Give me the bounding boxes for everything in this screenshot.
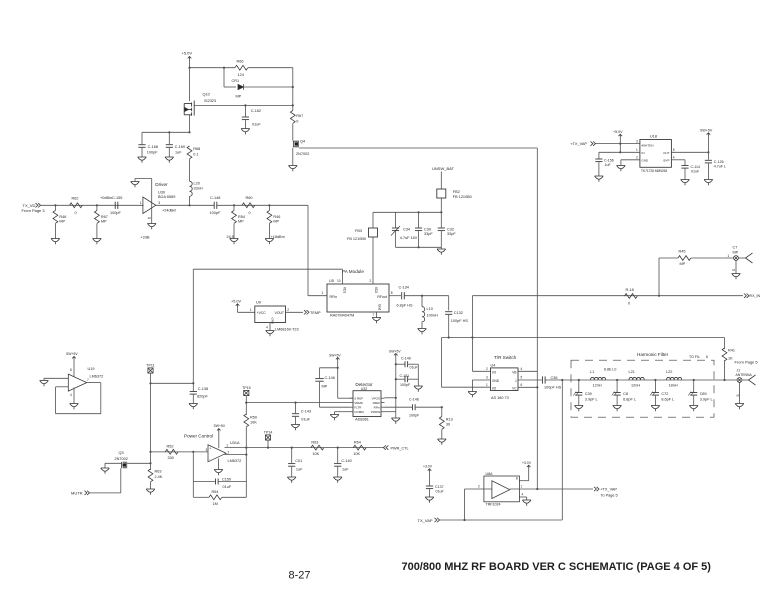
ground C168 (138, 157, 147, 163)
resistor R67 shunt (95, 211, 100, 224)
svg-text:BYP: BYP (663, 158, 669, 162)
ground C8 (613, 406, 622, 412)
svg-text:RFout: RFout (377, 295, 387, 299)
wire FB3 up to rail (372, 212, 374, 228)
wire to CR1 (224, 86, 236, 88)
capacitor C151 (396, 378, 405, 380)
svg-text:6: 6 (706, 355, 708, 359)
capacitor C156 (595, 159, 602, 162)
resistor R64 (209, 495, 222, 500)
wire TP14 stub (267, 440, 269, 448)
svg-text:100pF: 100pF (210, 211, 221, 215)
svg-text:C-146: C-146 (325, 376, 335, 380)
wire down right of R66/CR1 (292, 68, 294, 111)
svg-text:C30: C30 (424, 228, 431, 232)
svg-text:TK71728 MM5265: TK71728 MM5265 (641, 169, 667, 173)
wire VD2 to FB3 (372, 237, 374, 284)
svg-text:3.9pF L: 3.9pF L (585, 398, 598, 402)
wire to C169 (168, 132, 170, 144)
svg-text:TP15: TP15 (242, 386, 251, 390)
svg-text:SW+5V: SW+5V (700, 129, 713, 133)
svg-text:01uF: 01uF (691, 170, 700, 174)
ground R53 (146, 489, 155, 495)
svg-text:C-148: C-148 (409, 398, 419, 402)
wire Q3 source down (120, 468, 122, 493)
wire feedback left vertical (192, 452, 194, 498)
svg-text:3: 3 (486, 376, 488, 380)
junction crossing (471, 336, 473, 338)
svg-text:C8: C8 (623, 392, 628, 396)
power flag arrow SW_5V (707, 133, 711, 136)
capacitor C146 (315, 379, 323, 382)
svg-text:From Page 3: From Page 3 (22, 208, 46, 213)
svg-text:VPOS: VPOS (372, 396, 380, 400)
svg-text:SW+5V: SW+5V (214, 424, 226, 428)
ground COMM (330, 415, 339, 421)
svg-text:100pF HS: 100pF HS (544, 386, 562, 390)
wire Q3 gate (105, 462, 122, 464)
svg-text:TRF1024: TRF1024 (486, 503, 501, 507)
capacitor C72 (652, 393, 659, 396)
svg-text:01uF: 01uF (252, 123, 261, 127)
svg-text:01uF: 01uF (410, 365, 419, 369)
transistor Q10 (184, 101, 194, 116)
svg-text:L1: L1 (590, 370, 594, 374)
wire R41 to antenna node (724, 360, 726, 380)
svg-text:33pF: 33pF (447, 232, 456, 236)
svg-text:1M: 1M (213, 502, 218, 506)
wire Q3 drain to R53 node (127, 462, 150, 464)
junction L20 feed (188, 204, 190, 206)
svg-text:TEMP: TEMP (310, 311, 321, 315)
ground C39 (575, 406, 584, 412)
svg-text:3: 3 (636, 139, 638, 143)
svg-text:PWDN: PWDN (371, 410, 380, 414)
resistor R54 (232, 211, 237, 224)
junction bottom rail (418, 246, 420, 248)
wire U19 + input to ground (44, 377, 68, 379)
wire pin 5 T/R (518, 379, 542, 381)
svg-text:4: 4 (673, 156, 675, 160)
ground U19 (70, 404, 79, 410)
capacitor C34 plates (392, 228, 399, 231)
ground C138 (189, 404, 198, 410)
svg-text:1: 1 (521, 485, 523, 489)
svg-text:R66: R66 (237, 60, 244, 64)
svg-text:C-126: C-126 (714, 160, 724, 164)
op-amp U8A box (484, 476, 520, 502)
wire down to C138 (192, 383, 194, 391)
pin stub detector right (381, 397, 385, 399)
resistor R67 (290, 111, 295, 124)
inductor L10 (422, 307, 425, 322)
wire to R67 shunt (96, 205, 98, 210)
capacitor C01 (288, 464, 295, 467)
wire down to C162 (244, 105, 246, 116)
wire R45 to C7 (691, 257, 734, 259)
svg-text:18nH: 18nH (669, 384, 678, 388)
svg-text:R41: R41 (728, 349, 735, 353)
wire R67b to ground (96, 224, 98, 239)
pin stub detector left (350, 406, 354, 408)
resistor R53 2.4K (148, 469, 153, 482)
wire Q10 gate rail (194, 104, 293, 106)
wire R68 to L20 (189, 159, 191, 181)
svg-text:12nH: 12nH (631, 384, 640, 388)
pin stub detector left (350, 397, 354, 399)
capacitor C137 (426, 486, 433, 489)
svg-text:FB 1210B0: FB 1210B0 (453, 195, 472, 199)
wire C148det to TX line tap (416, 406, 442, 408)
junction U8A input (463, 519, 465, 521)
wire feedback right (100, 383, 102, 414)
wire TP11 vertical (150, 373, 152, 470)
ground U18 (617, 166, 626, 172)
svg-text:2.4K: 2.4K (155, 475, 163, 479)
svg-text:100pF: 100pF (110, 211, 121, 215)
resistor R68 (187, 146, 192, 159)
diode CR1 (238, 84, 243, 90)
svg-text:MP: MP (322, 385, 328, 389)
junction filter node 3 (654, 379, 656, 381)
wire C7 to ground (735, 260, 737, 273)
ground Q4 (289, 166, 298, 172)
svg-text:C89: C89 (700, 392, 707, 396)
svg-text:FB 1210B0: FB 1210B0 (347, 237, 366, 241)
svg-text:100nH: 100nH (427, 314, 438, 318)
junction TP14 (267, 447, 269, 449)
svg-text:FB3: FB3 (355, 229, 362, 233)
wire +3.0V to U8A (528, 469, 530, 481)
wire C140 to ground (337, 467, 339, 477)
svg-text:6.8pF L: 6.8pF L (623, 398, 636, 402)
svg-text:From Page 5: From Page 5 (735, 360, 759, 365)
svg-text:U31A: U31A (230, 441, 240, 445)
ground C126 (704, 180, 713, 186)
wire ground stem driver (134, 179, 136, 182)
svg-text:Driver: Driver (155, 182, 168, 187)
wire C72 to ground (654, 396, 656, 406)
svg-text:R45: R45 (679, 250, 686, 254)
svg-text:MP: MP (236, 95, 242, 99)
ground driver (147, 224, 156, 230)
wire VRMS line (246, 402, 349, 404)
svg-text:8: 8 (70, 368, 72, 372)
wire to C01 (291, 448, 293, 463)
capacitor C30 (415, 228, 422, 231)
capacitor C168 (138, 145, 145, 148)
wire MUTR line (90, 492, 121, 494)
wire R46b to ground (268, 224, 270, 239)
ferrite bead FB2 (437, 189, 446, 198)
svg-text:To Page 5: To Page 5 (601, 494, 618, 498)
svg-text:IN: IN (642, 151, 645, 155)
wire R46 to ground (54, 224, 56, 239)
capacitor C132 (445, 312, 452, 315)
ground L10 (418, 329, 427, 335)
svg-text:0: 0 (249, 211, 251, 215)
junction C151 (395, 378, 397, 380)
wire R53 to ground (150, 482, 152, 489)
svg-text:C36: C36 (551, 376, 558, 380)
wire filter shunt C89 (693, 380, 695, 392)
wire U19 to ground (73, 388, 75, 404)
svg-text:TP11: TP11 (146, 363, 154, 367)
svg-text:0: 0 (628, 302, 630, 306)
junction C162 tap (244, 104, 246, 106)
wire C143 to ground (295, 417, 297, 425)
svg-text:1: 1 (728, 254, 730, 258)
svg-text:R50: R50 (250, 416, 257, 420)
wire VD1 feed from power control (193, 268, 342, 270)
svg-text:8: 8 (391, 291, 393, 295)
wire R54 to ground (233, 224, 235, 239)
svg-text:700/800 MHZ RF BOARD VER C SCH: 700/800 MHZ RF BOARD VER C SCHEMATIC (PA… (401, 561, 711, 573)
wire BYP pin U18 (671, 159, 685, 161)
svg-text:#SHTDN: #SHTDN (642, 143, 654, 147)
wire input down to TX_VAP line (464, 489, 466, 520)
svg-text:R52: R52 (167, 445, 174, 449)
svg-text:Gnd: Gnd (378, 304, 382, 310)
junction L10 (421, 295, 423, 297)
wire TX_VAP to SHTDN (596, 143, 640, 145)
wire +5V down (619, 138, 621, 153)
svg-text:4: 4 (522, 493, 524, 497)
svg-text:CR1: CR1 (232, 79, 240, 83)
svg-text:2: 2 (636, 156, 638, 160)
connector J1 (737, 378, 742, 383)
wire +5V vertical to Q10 source (189, 60, 191, 101)
junction pin 6 (536, 386, 538, 388)
ground C72 (651, 406, 660, 412)
svg-text:MP: MP (59, 220, 65, 224)
junction filter node 1 (578, 379, 580, 381)
wire U19 - input (56, 386, 69, 388)
power flag arrow +3.0V right (527, 465, 531, 468)
ground C169 (165, 157, 174, 163)
capacitor C150 (216, 479, 219, 485)
junction bypass rail (188, 131, 190, 133)
resistor R13 (439, 417, 444, 430)
wire C32 bottom (440, 231, 442, 249)
svg-text:39: 39 (446, 423, 450, 427)
wire to R46b (268, 205, 270, 210)
svg-text:4: 4 (521, 367, 523, 371)
svg-text:GND: GND (492, 379, 500, 383)
ground R67b (93, 239, 102, 245)
ground T/R pin3 (468, 392, 477, 398)
junction input line (149, 451, 151, 453)
wire long vertical to power control node (192, 269, 194, 383)
svg-text:L22: L22 (666, 370, 672, 374)
wire into pin 8 (519, 480, 528, 482)
wire detector RFin line (385, 406, 413, 408)
PA module U5 box (327, 284, 389, 312)
svg-text:+5.0V: +5.0V (231, 300, 241, 304)
junction VB control (536, 488, 538, 490)
svg-text:U19: U19 (88, 367, 95, 371)
wire TX_VAP up to RF line (561, 380, 563, 520)
svg-text:1K: 1K (728, 357, 733, 361)
svg-text:RA07M4047M: RA07M4047M (330, 314, 354, 318)
wire OUT pin U18 (671, 151, 708, 153)
svg-text:LM6372: LM6372 (228, 459, 242, 463)
ground PWDN (392, 418, 401, 424)
svg-text:VD1: VD1 (343, 287, 347, 293)
svg-text:+5.0V: +5.0V (182, 51, 193, 56)
ground C01 (287, 477, 296, 483)
svg-text:RFin: RFin (374, 405, 381, 409)
net flag PWR_CTL (383, 445, 388, 449)
svg-text:SW+5V: SW+5V (329, 354, 341, 358)
capacitor C34 tantalum (395, 212, 397, 227)
wire to R45 (659, 257, 678, 259)
wire +3.0V to C137 (429, 472, 431, 485)
svg-text:PWR_CTL: PWR_CTL (391, 447, 409, 451)
svg-text:+3.0V: +3.0V (423, 465, 433, 469)
wire to R66 (190, 67, 236, 69)
wire C126 to ground (707, 163, 709, 179)
svg-text:C-148: C-148 (210, 196, 220, 200)
op-amp U8A tri (492, 481, 510, 499)
wire C34 bottom (395, 231, 397, 247)
svg-text:U30: U30 (158, 190, 165, 194)
wire to L10 (421, 296, 423, 307)
svg-text:C-138: C-138 (198, 387, 208, 391)
resistor R66 (235, 65, 248, 70)
svg-text:8.6pF L: 8.6pF L (661, 398, 674, 402)
svg-text:T/R Switch: T/R Switch (494, 355, 517, 360)
pin stub detector right (381, 402, 385, 404)
wire GND down (620, 160, 622, 166)
capacitor C39 (575, 393, 582, 396)
wire to C32 (440, 212, 442, 227)
svg-text:MUTR: MUTR (71, 491, 83, 496)
wire RF line after C134 (405, 295, 449, 297)
svg-text:TX_VAP: TX_VAP (418, 518, 433, 523)
svg-text:VC: VC (512, 386, 517, 390)
svg-text:PA Module: PA Module (342, 269, 364, 274)
svg-text:COMM: COMM (354, 410, 364, 414)
op-amp U31A (208, 445, 226, 462)
svg-text:0: 0 (296, 120, 298, 124)
junction +5V / R66 rail (188, 67, 190, 69)
svg-text:100pF: 100pF (409, 414, 420, 418)
wire Q4 source to ground (292, 148, 294, 166)
wire C137 to ground (429, 489, 431, 497)
svg-text:4: 4 (266, 326, 268, 330)
svg-text:1REF: 1REF (372, 401, 380, 405)
ground C7 (732, 274, 741, 280)
antenna fork J1 (749, 375, 756, 385)
wire to C138 node (151, 382, 194, 384)
wire TX_VAP line (440, 519, 563, 521)
svg-text:C-149: C-149 (401, 357, 411, 361)
wire into +VCC pin (238, 311, 255, 313)
pin stub detector right (381, 411, 385, 413)
svg-text:2N7002: 2N7002 (296, 152, 309, 156)
wire down to CR1 anode (223, 68, 225, 87)
pin stub detector right (381, 406, 385, 408)
svg-text:L20: L20 (194, 182, 200, 186)
junction TP11/C138 line (149, 382, 151, 384)
junction C132 bottom (448, 336, 450, 338)
wire C114 to ground (684, 169, 686, 180)
svg-text:3.9pF L: 3.9pF L (700, 398, 713, 402)
ground C114 (681, 180, 690, 186)
svg-text:C32: C32 (447, 228, 454, 232)
svg-text:TP14: TP14 (264, 430, 273, 434)
svg-text:C-114: C-114 (691, 165, 701, 169)
svg-text:6.8pF HS: 6.8pF HS (397, 304, 414, 308)
wire FB2 to rail (440, 198, 442, 212)
svg-text:R63: R63 (311, 441, 318, 445)
svg-text:0: 0 (75, 211, 77, 215)
svg-text:SW+5V: SW+5V (389, 350, 401, 354)
junction filter node 4 (693, 379, 695, 381)
wire PWDN pin extend (385, 411, 396, 413)
svg-text:I/O: I/O (492, 370, 497, 374)
wire to C30 (418, 212, 420, 227)
wire C148 to corner (217, 204, 308, 206)
svg-text:R67: R67 (296, 114, 303, 118)
junction C149 (395, 363, 397, 365)
inductor L22 (667, 377, 682, 380)
wire RX line (472, 295, 743, 297)
power flag arrow +5.0V (188, 57, 192, 60)
wire caps common (417, 364, 419, 386)
svg-text:C-169: C-169 (175, 145, 185, 149)
junction TX_VAP feed on RF line (561, 379, 563, 381)
wire into PA RFin (308, 295, 327, 297)
junction TX_VAP cross (619, 143, 621, 145)
svg-text:FB2: FB2 (453, 190, 460, 194)
wire SW+5V to S REF (337, 361, 339, 398)
ground R46b (265, 239, 274, 245)
junction C169 (168, 131, 170, 133)
pin stub detector left (350, 402, 354, 404)
capacitor C138 (190, 392, 197, 395)
svg-text:C150: C150 (222, 478, 231, 482)
svg-text:C39: C39 (585, 392, 592, 396)
wire CR1 cathode to right (243, 86, 293, 88)
svg-text:R64: R64 (354, 441, 361, 445)
ferrite bead FB3 (369, 228, 378, 237)
svg-text:+3.0V: +3.0V (522, 461, 532, 465)
svg-text:R-18: R-18 (626, 288, 634, 292)
wire C151 right (408, 378, 418, 380)
junction R50 node (245, 447, 247, 449)
svg-text:RFin: RFin (330, 295, 338, 299)
ground C140 (333, 477, 342, 483)
capacitor C149 (396, 363, 405, 365)
svg-text:+2dB: +2dB (141, 236, 150, 240)
wire C149 right (408, 363, 418, 365)
wire C8 to ground (616, 396, 618, 406)
svg-text:8-27: 8-27 (288, 570, 310, 582)
svg-text:3: 3 (158, 201, 160, 205)
svg-text:4.7uF L: 4.7uF L (714, 165, 726, 169)
wire VPOS pin extend (385, 397, 396, 399)
wire L20 to driver output line (189, 196, 191, 205)
junction SW_5V (707, 151, 709, 153)
svg-text:2: 2 (486, 367, 488, 371)
wire IN pin U18 (599, 151, 640, 153)
wire bypass cap rail (142, 131, 190, 133)
ground C137 (425, 497, 434, 503)
svg-text:4.7uF 16V: 4.7uF 16V (400, 236, 418, 240)
wire VPOS supply vertical (395, 357, 397, 418)
